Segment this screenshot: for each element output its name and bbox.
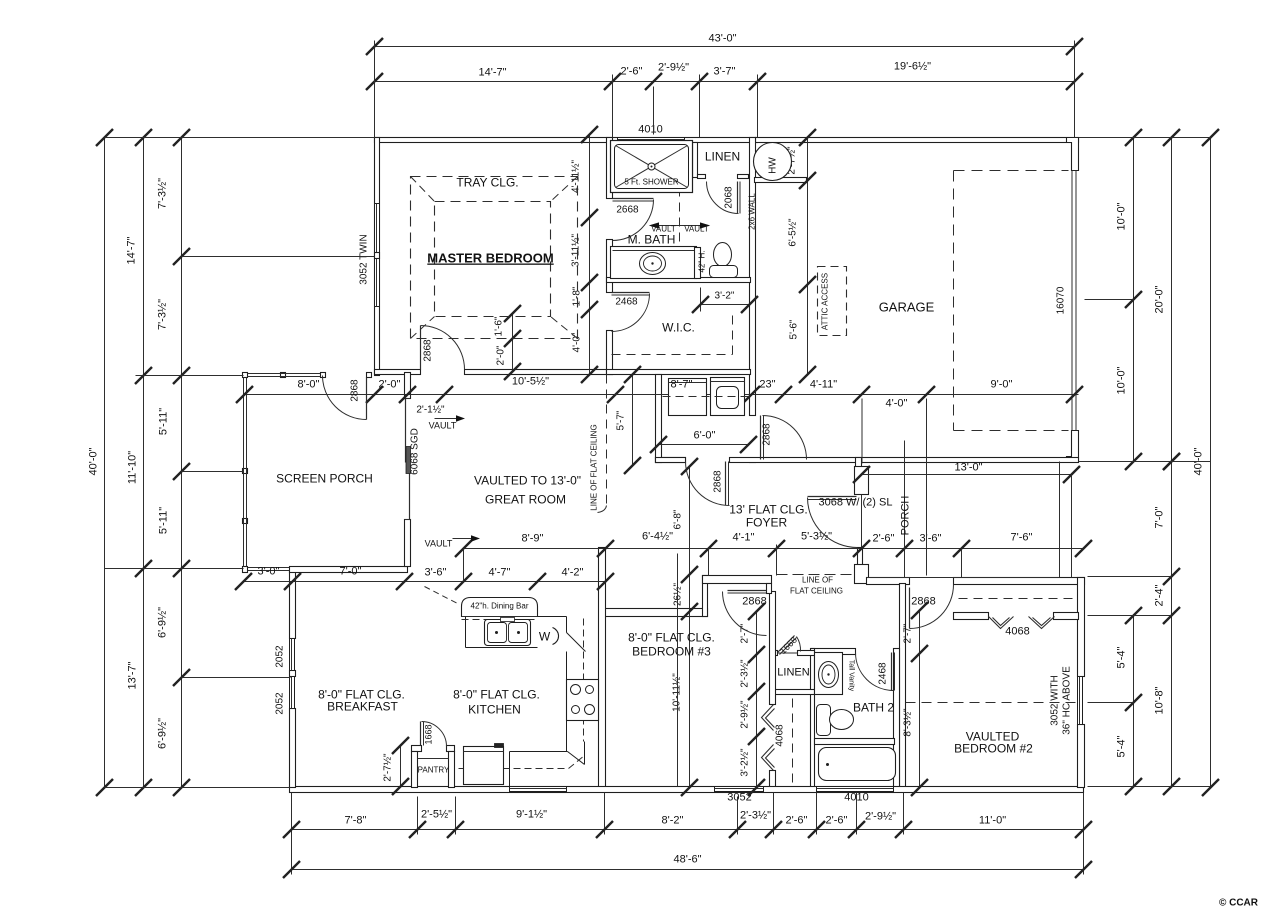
wall top master/bath <box>375 138 758 143</box>
svg-text:2'-7": 2'-7" <box>903 623 914 643</box>
svg-text:6068 SGD: 6068 SGD <box>410 428 421 475</box>
kitchen bottom counter <box>510 751 568 753</box>
kitchen corner diag SE <box>568 752 585 765</box>
bath2 vanity <box>815 653 843 695</box>
svg-text:43'-0": 43'-0" <box>708 33 736 45</box>
left extension lines <box>105 137 375 139</box>
svg-text:8'-2": 8'-2" <box>662 815 684 827</box>
svg-text:14'-7": 14'-7" <box>126 236 138 264</box>
svg-text:2'-6": 2'-6" <box>873 533 895 545</box>
dryer <box>711 378 745 416</box>
svg-text:LINE OF FLAT CEILING: LINE OF FLAT CEILING <box>590 424 599 510</box>
svg-text:4'-2": 4'-2" <box>562 567 584 579</box>
svg-text:6'-9½": 6'-9½" <box>157 718 169 749</box>
wall bedroom2 east <box>1078 578 1085 677</box>
svg-text:2'-0": 2'-0" <box>496 345 507 365</box>
wall breakfast west <box>290 571 296 639</box>
svg-text:20'-0": 20'-0" <box>1154 285 1166 313</box>
svg-text:6'-8": 6'-8" <box>673 509 684 529</box>
svg-text:3'-0": 3'-0" <box>258 566 280 578</box>
svg-text:GARAGE: GARAGE <box>879 300 935 315</box>
svg-text:4068: 4068 <box>775 724 786 747</box>
svg-text:2'-9½": 2'-9½" <box>740 700 751 729</box>
svg-text:8'-0": 8'-0" <box>298 379 320 391</box>
kitchen right counter edges <box>566 652 568 680</box>
kitchen counter top edge <box>462 616 538 618</box>
dim row 2 top (14'-7", 2'-6", 2'-9 1/2", 3'-7", 19'-6 1/2") <box>375 81 1075 83</box>
svg-text:9'-1½": 9'-1½" <box>516 809 547 821</box>
svg-text:2868: 2868 <box>742 596 766 608</box>
wall linen2 bottom <box>771 690 815 695</box>
dim row y394 (8'-0,2'-0,10'-5 1/2 | 8'-7,23,4'-11,4'-0,9'-0) <box>245 394 1079 396</box>
svg-text:10'-8": 10'-8" <box>1154 686 1166 714</box>
bath2 toilet <box>817 705 831 736</box>
svg-text:5'-4": 5'-4" <box>1116 735 1128 757</box>
door 2668 mbath <box>613 198 654 200</box>
dim row y581 kitchen/porch <box>244 581 606 583</box>
wall bath2 tub front <box>815 739 895 745</box>
svg-text:3'-6": 3'-6" <box>425 567 447 579</box>
svg-text:FOYER: FOYER <box>746 516 788 530</box>
line of flat ceiling dashed vertical <box>606 375 608 506</box>
mbath vanity counter <box>611 247 697 279</box>
tray ceiling inner dashed rect <box>435 202 551 317</box>
wall bedroom2 west <box>900 584 906 788</box>
svg-text:BATH 2: BATH 2 <box>853 701 894 715</box>
svg-text:13'-7": 13'-7" <box>127 661 139 689</box>
svg-text:3'-2": 3'-2" <box>715 291 735 302</box>
svg-text:40'-0": 40'-0" <box>88 447 100 475</box>
porch screen north <box>248 373 321 375</box>
dim col right 2'-4"/10'-8" <box>1163 607 1180 624</box>
dining bar leader dashed <box>425 587 458 604</box>
porch screen west <box>243 378 245 567</box>
line of flat ceiling dashed hall <box>777 574 853 576</box>
dim col right 7'-0" <box>1171 462 1173 787</box>
wall pantry <box>412 746 422 752</box>
svg-text:4'-1": 4'-1" <box>733 532 755 544</box>
svg-text:ATTIC ACCESS: ATTIC ACCESS <box>821 273 830 330</box>
bath2 sink <box>819 662 839 688</box>
wall bedroom3 step <box>703 576 708 617</box>
sliding glass door 6068 <box>405 399 407 463</box>
window 3052 bedroom3 <box>715 787 764 792</box>
wic closet rod dashed <box>612 354 733 356</box>
window 3052 TWIN master left <box>375 204 380 307</box>
svg-text:TRAY CLG.: TRAY CLG. <box>456 176 518 190</box>
wall top garage <box>756 138 1079 143</box>
svg-text:13' FLAT CLG.: 13' FLAT CLG. <box>729 503 808 517</box>
svg-text:GREAT ROOM: GREAT ROOM <box>485 493 566 507</box>
dim 6'-0 utility <box>659 444 749 446</box>
porch post NW <box>243 373 248 378</box>
svg-text:LINEN: LINEN <box>777 667 809 679</box>
bottom dim row 48'-6" <box>292 869 1084 871</box>
svg-text:11'-0": 11'-0" <box>979 815 1006 827</box>
svg-text:1'-6": 1'-6" <box>494 316 505 336</box>
svg-text:PANTRY: PANTRY <box>418 766 450 775</box>
bifold 4068 bedroom3 closet <box>762 705 774 731</box>
svg-text:2'-7": 2'-7" <box>740 623 751 643</box>
svg-text:2868: 2868 <box>350 379 361 402</box>
tray ceiling corner diagonals <box>411 177 435 202</box>
mbath sink <box>640 253 666 275</box>
dim col hall closet (2'-7,2'-3 1/2,2'-9 1/2,3'-2 1/2) <box>756 612 758 788</box>
dim col left inner (7'-3 1/2 etc) <box>181 138 183 788</box>
svg-text:8'-3½": 8'-3½" <box>903 708 914 737</box>
door 2868 master <box>420 326 422 370</box>
svg-text:KITCHEN: KITCHEN <box>468 703 521 717</box>
door 2068 linen <box>737 182 739 214</box>
dim col 6'-8 / 26 1/2 / 10'-11 1/2 <box>689 467 691 788</box>
svg-text:7'-8": 7'-8" <box>345 815 367 827</box>
wall utility west <box>656 375 662 463</box>
svg-text:6'-5½": 6'-5½" <box>788 218 799 247</box>
svg-text:BREAKFAST: BREAKFAST <box>327 700 398 714</box>
mbath vault dashed line <box>679 143 681 247</box>
door 2468 bath2 <box>891 653 893 691</box>
svg-text:9'-0": 9'-0" <box>991 379 1013 391</box>
svg-text:36" HC ABOVE: 36" HC ABOVE <box>1062 666 1073 735</box>
svg-text:6'-9½": 6'-9½" <box>157 607 169 638</box>
svg-text:4'-7": 4'-7" <box>489 567 511 579</box>
porch post SW <box>243 567 248 573</box>
svg-text:2'-9½": 2'-9½" <box>658 62 689 74</box>
mbath pony wall 42h <box>695 248 701 279</box>
wall wic bottom <box>607 370 751 375</box>
svg-text:LINE OF: LINE OF <box>802 576 833 585</box>
porch screen south <box>248 567 290 569</box>
svg-text:6'-4½": 6'-4½" <box>642 531 673 543</box>
door 2868 utility <box>725 462 727 506</box>
door 3068 front <box>808 496 857 498</box>
bottom extension lines <box>291 793 293 875</box>
svg-text:2868: 2868 <box>713 470 724 493</box>
porch post NE <box>367 373 372 378</box>
svg-text:MASTER BEDROOM: MASTER BEDROOM <box>427 251 553 266</box>
svg-text:2468: 2468 <box>878 662 889 685</box>
dim row 43'-0" top <box>375 46 1075 48</box>
door 2868 porch <box>366 378 368 420</box>
svg-text:3'-11½": 3'-11½" <box>571 234 582 268</box>
svg-text:3'-7": 3'-7" <box>714 66 736 78</box>
svg-text:2'-3½": 2'-3½" <box>740 659 751 688</box>
window 4010 shower <box>618 138 685 143</box>
svg-text:1668: 1668 <box>424 724 434 744</box>
svg-text:2468: 2468 <box>615 297 638 308</box>
svg-text:4010: 4010 <box>638 124 662 136</box>
wall bed2 closet front <box>954 613 989 620</box>
svg-text:W.I.C.: W.I.C. <box>662 321 695 335</box>
dim col right 20'-0" <box>1171 138 1173 462</box>
door 2868 bedroom2 <box>909 588 911 629</box>
wall bedroom3 top high <box>703 576 772 584</box>
svg-text:VAULTED TO 13'-0": VAULTED TO 13'-0" <box>474 474 581 488</box>
porch slab edge <box>867 577 1060 579</box>
door 2868 garage entry <box>760 416 762 460</box>
svg-text:2x6 WALL: 2x6 WALL <box>748 193 757 230</box>
wall great room west <box>405 373 411 399</box>
wall garage right top block <box>1067 138 1079 171</box>
svg-text:SCREEN PORCH: SCREEN PORCH <box>276 472 373 486</box>
top extension lines <box>374 41 376 138</box>
wall hw nook bottom <box>755 178 807 183</box>
svg-text:2'-6": 2'-6" <box>786 815 808 827</box>
bedroom2 closet rod dashed <box>959 598 1078 600</box>
bedroom2 vault dashed <box>906 702 1078 704</box>
window kitchen bottom <box>510 787 567 792</box>
svg-text:2868: 2868 <box>911 596 935 608</box>
wall kitchen/bedroom3 divider <box>599 548 606 788</box>
wall linen2 top <box>771 651 778 656</box>
svg-text:10'-0": 10'-0" <box>1116 202 1128 230</box>
svg-text:5'-7": 5'-7" <box>616 410 627 430</box>
hw water heater <box>754 143 792 181</box>
svg-text:7'-3½": 7'-3½" <box>157 178 169 209</box>
svg-text:2'-5½": 2'-5½" <box>421 809 452 821</box>
svg-text:5'-3½": 5'-3½" <box>801 531 832 543</box>
svg-text:4'-11": 4'-11" <box>810 379 837 391</box>
svg-text:3'-6": 3'-6" <box>920 533 942 545</box>
bottom dim row 1 <box>292 829 1084 831</box>
vault arrows mbath <box>651 225 709 227</box>
svg-text:2'-9½": 2'-9½" <box>865 811 896 823</box>
door 2868 bedroom3 <box>728 590 767 592</box>
svg-text:2868: 2868 <box>423 339 434 362</box>
kitchen sink double <box>485 620 531 646</box>
door 1668 linen2 <box>778 636 795 653</box>
svg-text:3068 W/ (2) SL: 3068 W/ (2) SL <box>819 497 893 509</box>
svg-text:23": 23" <box>759 379 775 391</box>
svg-text:4068: 4068 <box>1005 626 1029 638</box>
svg-text:8'-9": 8'-9" <box>522 533 544 545</box>
window 3052 bedroom2 <box>1078 677 1083 725</box>
svg-text:2668: 2668 <box>616 205 639 216</box>
porch post N1 <box>281 373 286 378</box>
svg-text:Tall Vanity: Tall Vanity <box>848 660 855 692</box>
wall 2x6 garage west <box>750 138 756 416</box>
door 1668 pantry <box>420 722 422 746</box>
svg-text:7'-3½": 7'-3½" <box>157 299 169 330</box>
svg-text:5'-4": 5'-4" <box>1116 646 1128 668</box>
wall master bottom left of door <box>375 370 421 375</box>
dim col 14'-7"/11'-10"/13'-7" <box>143 138 145 788</box>
pantry shelf line <box>418 758 449 760</box>
wall linen bottom <box>698 175 706 179</box>
svg-text:LINEN: LINEN <box>705 150 740 164</box>
svg-text:2'-7½": 2'-7½" <box>383 753 394 782</box>
right extension lines <box>1079 137 1211 139</box>
wall garage right bottom block <box>1067 431 1079 462</box>
dim col right 10'/10' <box>1133 138 1135 462</box>
svg-text:PORCH: PORCH <box>900 496 912 536</box>
svg-text:VAULT: VAULT <box>425 539 453 549</box>
svg-text:5 Ft. SHOWER: 5 Ft. SHOWER <box>624 178 678 187</box>
wall bedroom3 door jamb <box>767 584 772 594</box>
door 2468 wic <box>612 292 650 294</box>
mbath toilet <box>714 243 732 267</box>
dim col right 5'-4"/5'-4" <box>1133 616 1135 787</box>
wall porch front / bed2 top <box>867 578 910 585</box>
label 8-7 utility <box>613 394 661 396</box>
window 4010 bath2 <box>817 787 894 792</box>
svg-text:3052: 3052 <box>727 792 751 804</box>
wall bath2 top <box>812 649 856 655</box>
svg-text:2052: 2052 <box>275 645 286 668</box>
wall master bottom right of door <box>465 370 613 375</box>
wall breakfast mullion <box>290 671 296 677</box>
dining bar <box>462 598 538 617</box>
svg-text:6'-0": 6'-0" <box>694 430 716 442</box>
bedroom3 dim 10'-11 1/2 <box>677 554 679 787</box>
dim col master right (4'-11 1/2,3'-11 1/2,1'-8,4'-0) <box>589 135 591 375</box>
kitchen stove <box>567 680 599 721</box>
wall master left <box>375 138 380 376</box>
garage ceiling dashed <box>954 170 1069 172</box>
svg-text:2052: 2052 <box>275 692 286 715</box>
wall foyer right jog <box>856 458 862 468</box>
svg-text:19'-6½": 19'-6½" <box>894 61 931 73</box>
svg-text:7'-0": 7'-0" <box>340 566 362 578</box>
dim col bed2 (2'-7, 8'-3 1/2) <box>919 611 921 788</box>
svg-text:42"h. Dining Bar: 42"h. Dining Bar <box>471 602 529 611</box>
dim col 2'-7 1/2 pantry <box>400 746 402 787</box>
svg-text:8'-0" FLAT CLG.: 8'-0" FLAT CLG. <box>453 688 540 702</box>
svg-text:VAULT: VAULT <box>429 421 457 431</box>
dim row y548 center <box>464 548 1084 550</box>
svg-text:2868: 2868 <box>762 423 773 446</box>
svg-text:11'-10": 11'-10" <box>127 451 139 484</box>
svg-text:FLAT CEILING: FLAT CEILING <box>790 587 843 596</box>
wall bottom main <box>290 787 1084 793</box>
wall garage bottom / foyer top <box>656 458 686 463</box>
svg-text:© CCAR: © CCAR <box>1219 898 1259 909</box>
windows 2052 breakfast <box>290 639 295 671</box>
svg-text:3052 TWIN: 3052 TWIN <box>359 234 370 284</box>
washer <box>669 379 707 416</box>
svg-text:10'-0": 10'-0" <box>1116 366 1128 394</box>
svg-text:2'-0": 2'-0" <box>379 379 401 391</box>
svg-text:2'-6": 2'-6" <box>621 66 643 78</box>
dim 13'-0 garage front <box>862 474 1072 476</box>
svg-text:16070: 16070 <box>1056 286 1067 314</box>
bifold 4068 bedroom2 closet <box>989 617 1014 629</box>
dim col hw 2'-7 1/2,6'-5 1/2,5'-6 <box>807 138 809 375</box>
svg-text:10'-5½": 10'-5½" <box>512 376 549 388</box>
dim col right 40'-0" <box>1210 138 1212 788</box>
fridge <box>464 747 504 785</box>
bath2 tub <box>819 748 896 781</box>
wall bath2 east <box>894 649 900 788</box>
svg-text:7'-0": 7'-0" <box>1154 506 1166 528</box>
svg-text:5'-11": 5'-11" <box>158 507 170 534</box>
porch post N2 <box>321 373 326 378</box>
wall bedroom3 top low <box>605 609 708 617</box>
wall shower/bath/wic west <box>607 138 613 199</box>
svg-text:BEDROOM #3: BEDROOM #3 <box>632 645 711 659</box>
wall utility bottom jamb <box>656 458 686 463</box>
svg-text:2'-1½": 2'-1½" <box>416 405 445 416</box>
svg-text:13'-0": 13'-0" <box>954 462 982 474</box>
svg-text:2068: 2068 <box>724 186 735 209</box>
svg-text:M. BATH: M. BATH <box>628 233 676 247</box>
svg-text:2'-6": 2'-6" <box>826 815 848 827</box>
wall porch/breakfast top <box>290 567 408 573</box>
wall shower-linen divider <box>693 143 698 178</box>
svg-text:W: W <box>539 630 551 644</box>
svg-text:7'-6": 7'-6" <box>1011 532 1033 544</box>
dim col 5'-7" <box>632 375 634 466</box>
svg-text:3'-2½": 3'-2½" <box>740 748 751 777</box>
svg-text:14'-7": 14'-7" <box>478 67 506 79</box>
ext lines garage front <box>861 399 863 464</box>
wall bath bottom <box>607 278 751 283</box>
svg-text:42" H.: 42" H. <box>698 251 707 273</box>
svg-text:4'-0": 4'-0" <box>886 398 908 410</box>
svg-text:5'-6": 5'-6" <box>789 319 800 339</box>
svg-text:3052 WITH: 3052 WITH <box>1050 675 1061 726</box>
dim tray 1'-6 / 2'-0 <box>512 314 514 372</box>
dim 3'-2 wic <box>700 288 702 312</box>
svg-text:VAULT: VAULT <box>684 225 709 234</box>
shower 5ft <box>611 141 693 193</box>
wall front door south block <box>858 548 863 566</box>
garage door 16070 <box>1071 171 1073 431</box>
svg-text:8'-7": 8'-7" <box>671 379 693 391</box>
svg-text:2'-3½": 2'-3½" <box>740 810 771 822</box>
svg-text:HW: HW <box>768 157 779 174</box>
tray ceiling outer dashed rect <box>411 177 578 339</box>
svg-text:8'-0" FLAT CLG.: 8'-0" FLAT CLG. <box>628 631 715 645</box>
kitchen corner diag NE <box>567 633 586 652</box>
wall closet strip <box>770 592 776 705</box>
wall bath2 west / closet east <box>811 649 815 788</box>
svg-text:5'-11": 5'-11" <box>158 408 170 435</box>
porch post W mid <box>243 469 248 474</box>
dim col 40'-0" left <box>104 138 106 788</box>
attic access dashed box <box>818 267 847 336</box>
bedroom3 closet rod dashed <box>792 699 794 785</box>
svg-text:BEDROOM #2: BEDROOM #2 <box>954 742 1033 756</box>
svg-text:48'-6": 48'-6" <box>673 854 701 866</box>
svg-text:2'-4": 2'-4" <box>1154 584 1166 606</box>
